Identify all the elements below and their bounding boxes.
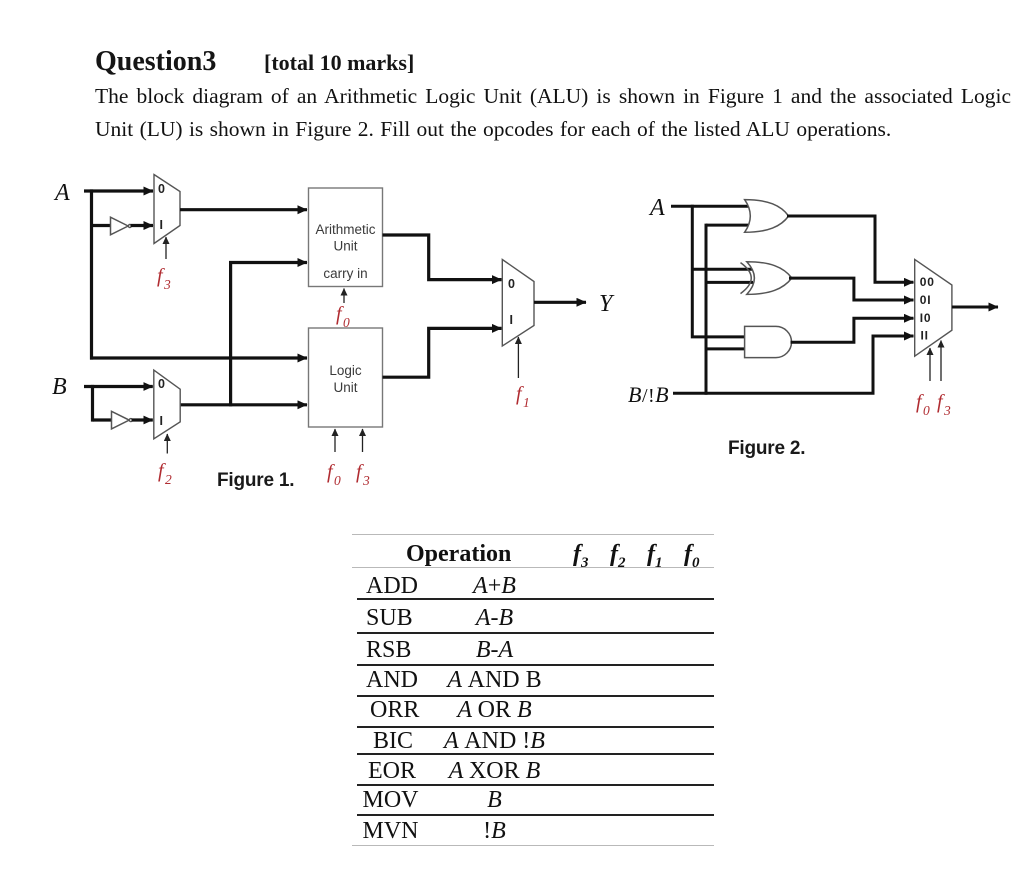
svg-text:0: 0 [158, 182, 165, 196]
svg-text:B: B [52, 374, 67, 400]
svg-text:Unit: Unit [333, 380, 357, 395]
select wire f0 into mux M4 [929, 348, 931, 381]
wire A to OR gate top input [671, 205, 750, 208]
caption Figure 2. [728, 438, 805, 459]
inverter (A path) [111, 217, 132, 235]
wire B to mux M2 input 0 [84, 385, 153, 388]
select wire f2 into mux M2 [166, 434, 168, 454]
caption Figure 1. [217, 470, 294, 491]
label f2 (red) [158, 460, 172, 487]
svg-text:0: 0 [923, 403, 930, 418]
svg-text:A: A [648, 195, 665, 221]
Logic Unit box U2 [309, 328, 383, 427]
wire Logic Unit output to mux M3 input 1 [383, 328, 502, 377]
label f0 (red, under Logic Unit) [327, 461, 341, 488]
wire Arithmetic Unit output to mux M3 input 0 [383, 235, 502, 280]
wire A trunk to Logic Unit input [90, 356, 307, 359]
select wire f3 into mux M1 [165, 237, 167, 259]
select wire f3 into Logic Unit [362, 429, 364, 452]
node B (Figure 1 input label) [52, 374, 67, 400]
wire A vertical trunk [90, 189, 93, 359]
svg-text:Figure 2.: Figure 2. [728, 438, 805, 459]
wire mux M2 to Logic Unit [180, 403, 307, 406]
wire mux M1 to Arithmetic Unit [180, 208, 307, 211]
svg-text:I: I [510, 313, 513, 327]
wire A trunk to XOR gate top input [692, 268, 753, 271]
node A (Figure 1 input label) [53, 180, 70, 206]
svg-text:0: 0 [158, 377, 165, 391]
svg-text:3: 3 [943, 403, 951, 418]
svg-text:1: 1 [523, 395, 530, 410]
wire XOR output to mux M4 input 01 [789, 278, 914, 300]
label f0 (red, Figure 2) [916, 391, 930, 418]
label f0 (red, under Arithmetic Unit) [336, 303, 350, 330]
AND gate G3 [745, 326, 792, 357]
select wire f0 into Logic Unit [334, 429, 336, 452]
mux M3 (output mux) [502, 260, 534, 347]
inverter (B path) [112, 411, 133, 429]
opcode table [352, 526, 715, 528]
node B/!B (Figure 2 input label) [628, 382, 669, 407]
select wire f0 into Arithmetic Unit (carry in) [343, 289, 345, 304]
svg-text:I: I [160, 218, 163, 232]
svg-text:carry in: carry in [323, 266, 367, 281]
svg-text:A: A [53, 180, 70, 206]
wire mux M3 output to Y [534, 301, 586, 304]
wire AND output to mux M4 input 10 [791, 318, 914, 342]
svg-text:Logic: Logic [329, 363, 362, 378]
label f3 (red, under Logic Unit) [356, 461, 370, 488]
svg-text:I0: I0 [920, 311, 932, 325]
wire B/!B to mux M4 input 11 [673, 336, 914, 393]
svg-text:3: 3 [163, 277, 171, 292]
label f1 (red) [516, 383, 530, 410]
wire inverter to mux M1 input 1 [131, 224, 153, 227]
select wire f3 into mux M4 [940, 341, 942, 382]
wire B trunk to OR gate bottom input [706, 224, 750, 227]
svg-text:Figure 1.: Figure 1. [217, 470, 294, 491]
wire B trunk to AND gate bottom input [706, 347, 746, 350]
wire OR output to mux M4 input 00 [787, 216, 914, 282]
label f3 (red, Figure 2) [937, 391, 951, 418]
svg-text:2: 2 [165, 472, 172, 487]
svg-text:Unit: Unit [333, 239, 357, 254]
svg-text:II: II [921, 329, 929, 343]
svg-text:0I: 0I [920, 293, 932, 307]
Arithmetic Unit box U1 [309, 188, 383, 287]
node A (Figure 2 input label) [648, 195, 665, 221]
wire mux M4 output [952, 306, 998, 309]
mux M1 (A select mux) [154, 175, 180, 244]
mux M4 (Figure 2 output mux) [915, 259, 952, 356]
XOR gate G2 [741, 262, 792, 295]
wire B trunk to XOR gate bottom input [706, 281, 753, 284]
label f3 (red) [157, 265, 171, 292]
wire B vertical trunk [91, 385, 94, 422]
svg-text:3: 3 [362, 473, 370, 488]
OR gate G1 [745, 200, 789, 233]
wire inverter to mux M2 input 1 [132, 418, 153, 421]
svg-text:Y: Y [599, 291, 615, 317]
node Y (output label) [599, 291, 615, 317]
wire A trunk to inverter [92, 224, 112, 227]
svg-text:0: 0 [508, 277, 515, 291]
svg-text:Arithmetic: Arithmetic [315, 222, 375, 237]
svg-text:B/!B: B/!B [628, 382, 669, 407]
wire B trunk to inverter [93, 418, 113, 421]
wire B-line to Arithmetic Unit second input [231, 263, 307, 407]
svg-text:I: I [160, 414, 163, 428]
mux M2 (B select mux) [154, 370, 180, 439]
svg-text:0: 0 [334, 473, 341, 488]
select wire f1 into mux M3 [517, 337, 519, 378]
wire A to mux M1 input 0 [84, 189, 153, 192]
svg-text:00: 00 [920, 275, 935, 289]
wire A trunk (Figure 2) down to AND gate [692, 205, 746, 337]
wire B trunk (Figure 2) from OR bottom input down to B/!B line [705, 224, 708, 395]
